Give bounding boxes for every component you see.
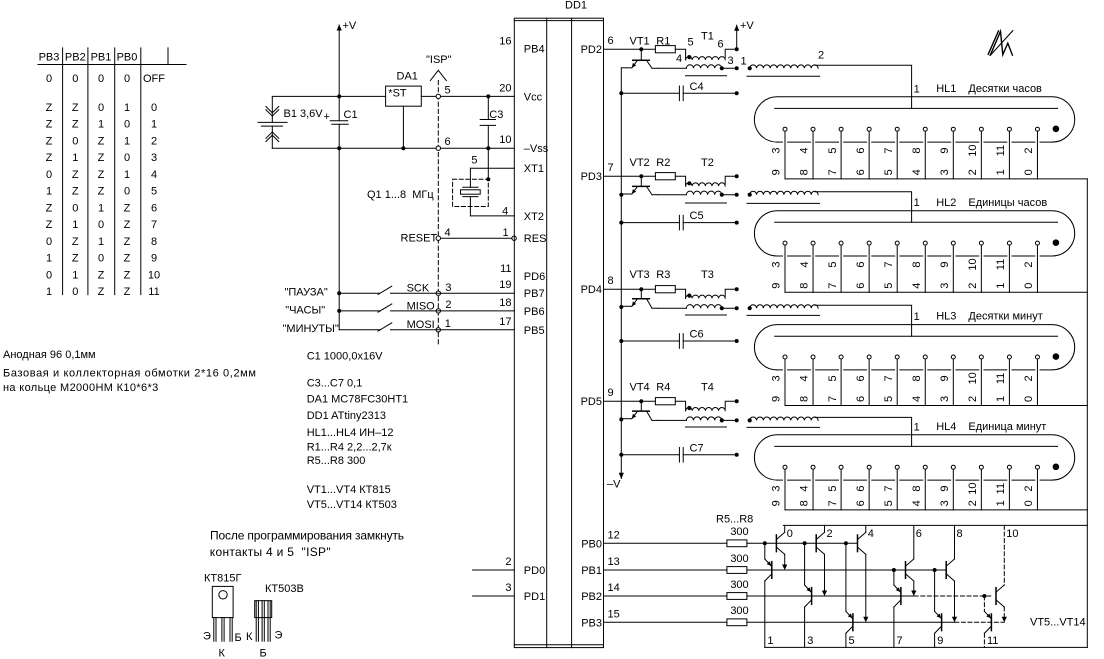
transistor VT7 (line 2)	[815, 535, 817, 552]
svg-text:300: 300	[730, 553, 748, 565]
svg-text:6: 6	[855, 396, 867, 402]
svg-text:13: 13	[608, 556, 620, 568]
svg-text:C3...C7 0,1: C3...C7 0,1	[307, 378, 363, 390]
svg-text:8: 8	[911, 375, 923, 381]
wire output line 5 to bottom bus	[845, 633, 847, 647]
svg-text:C4: C4	[690, 81, 704, 93]
svg-text:6: 6	[855, 500, 867, 506]
svg-text:18: 18	[499, 297, 511, 309]
wire PD2 to base of VT1	[604, 48, 656, 50]
svg-text:MOSI: MOSI	[407, 319, 435, 331]
wire VT15 emitter to PB3	[1003, 607, 1005, 620]
resistor R7	[727, 593, 747, 600]
svg-text:на кольце М2000НМ К10*6*3: на кольце М2000НМ К10*6*3	[3, 382, 159, 394]
svg-text:Z: Z	[98, 152, 105, 164]
transistor VT9 (line 4)	[857, 535, 859, 552]
svg-text:0: 0	[1023, 283, 1035, 289]
transistor VT13 (line 8)	[945, 562, 947, 579]
junction +V / C1	[337, 94, 341, 98]
svg-text:5: 5	[883, 500, 895, 506]
svg-text:RESET: RESET	[401, 233, 438, 245]
svg-text:2: 2	[827, 528, 833, 540]
svg-text:1: 1	[72, 219, 78, 231]
svg-text:R3: R3	[656, 269, 670, 281]
svg-text:Э: Э	[275, 630, 283, 642]
svg-text:0: 0	[98, 102, 104, 114]
transistor package KT503V leads	[255, 601, 257, 642]
svg-text:"МИНУТЫ": "МИНУТЫ"	[283, 323, 339, 335]
svg-text:Z: Z	[72, 253, 79, 265]
svg-text:20: 20	[499, 82, 511, 94]
svg-text:16: 16	[499, 36, 511, 48]
wire PB1 row	[747, 569, 946, 571]
svg-text:R4: R4	[656, 381, 670, 393]
wire -Vss to crystal case	[487, 148, 489, 179]
svg-text:5: 5	[883, 283, 895, 289]
svg-text:7: 7	[883, 148, 895, 154]
svg-text:5: 5	[827, 261, 839, 267]
svg-text:0: 0	[98, 73, 104, 85]
junction -V rail C5	[619, 221, 623, 225]
power +V symbol right rail	[736, 25, 738, 49]
svg-text:"ПАУЗА": "ПАУЗА"	[285, 287, 328, 299]
junction +V rail C5	[735, 221, 739, 225]
svg-text:2: 2	[1023, 486, 1035, 492]
resistor R6	[727, 567, 747, 574]
svg-text:Десятки минут: Десятки минут	[968, 311, 1042, 323]
svg-text:3: 3	[939, 283, 951, 289]
wire T1 secondary to HL1 anode	[815, 65, 912, 108]
nixie tube HL4 cathode pins	[783, 465, 787, 469]
svg-text:6: 6	[855, 375, 867, 381]
wire PB1 pin 13 to R6	[604, 569, 727, 571]
svg-text:Единицы часов: Единицы часов	[968, 197, 1047, 209]
transformer T3 core	[686, 314, 727, 316]
svg-text:1: 1	[124, 135, 130, 147]
resistor R1	[655, 46, 675, 53]
capacitor C7	[621, 454, 679, 456]
svg-text:0: 0	[72, 286, 78, 298]
transformer T2 winding 5-6	[686, 183, 726, 186]
resistor R4	[655, 398, 675, 405]
svg-text:1: 1	[124, 102, 130, 114]
svg-text:3: 3	[939, 396, 951, 402]
svg-text:VT4: VT4	[630, 381, 650, 393]
svg-text:PB1: PB1	[91, 52, 112, 64]
svg-text:9: 9	[608, 387, 614, 399]
svg-text:R1: R1	[656, 36, 670, 48]
wire VT13 emitter to PB3	[954, 581, 956, 620]
svg-text:6: 6	[855, 486, 867, 492]
transistor VT6 (line 1)	[771, 562, 773, 579]
wire PD0 stub pin 2	[473, 569, 515, 571]
svg-text:3: 3	[151, 152, 157, 164]
svg-text:0: 0	[98, 253, 104, 265]
svg-text:–V: –V	[607, 479, 621, 491]
wire output line 2 to top bus	[824, 525, 826, 532]
node ISP pin 2	[436, 309, 440, 313]
svg-text:Z: Z	[46, 135, 53, 147]
svg-text:4: 4	[911, 500, 923, 506]
wire PB0 pin 12 to R5	[604, 542, 727, 544]
svg-text:1: 1	[914, 197, 920, 209]
transistor VT12 (line 7)	[900, 588, 902, 605]
svg-text:0: 0	[98, 219, 104, 231]
junction -V rail C4	[619, 91, 623, 95]
svg-text:OFF: OFF	[143, 73, 165, 85]
wire PB2 row	[747, 595, 914, 597]
wire XT1 pin 5 to crystal	[470, 167, 514, 169]
svg-text:2: 2	[818, 50, 824, 62]
svg-text:"ЧАСЫ": "ЧАСЫ"	[285, 305, 325, 317]
svg-text:C7: C7	[690, 442, 704, 454]
transistor VT4 collector wire to winding 4-3	[658, 419, 686, 421]
svg-text:R2: R2	[656, 157, 670, 169]
svg-text:3: 3	[939, 500, 951, 506]
svg-text:8: 8	[799, 283, 811, 289]
node ISP pin 6	[436, 146, 440, 150]
svg-text:1: 1	[98, 119, 104, 131]
svg-text:9: 9	[771, 169, 783, 175]
capacitor C6	[621, 340, 679, 342]
svg-text:Z: Z	[46, 152, 53, 164]
transistor VT3	[640, 289, 642, 299]
svg-text:4: 4	[799, 375, 811, 381]
junction Vcc / C3	[486, 94, 490, 98]
transistor package KT503V body	[255, 601, 272, 618]
svg-text:T2: T2	[701, 157, 714, 169]
svg-text:8: 8	[151, 236, 157, 248]
svg-text:PD3: PD3	[581, 171, 602, 183]
svg-text:1: 1	[124, 169, 130, 181]
svg-text:1: 1	[995, 396, 1007, 402]
svg-text:RES: RES	[524, 233, 547, 245]
svg-text:0: 0	[1023, 500, 1035, 506]
svg-text:6: 6	[855, 261, 867, 267]
svg-text:Базовая и коллекторная обмотки: Базовая и коллекторная обмотки 2*16 0,2м…	[3, 368, 257, 380]
svg-text:14: 14	[608, 582, 620, 594]
svg-text:C1: C1	[344, 109, 358, 121]
svg-text:В1 3,6V: В1 3,6V	[284, 108, 324, 120]
svg-text:5: 5	[883, 396, 895, 402]
svg-text:Z: Z	[46, 219, 53, 231]
svg-text:5: 5	[827, 375, 839, 381]
svg-text:7: 7	[883, 261, 895, 267]
capacitor C3	[487, 96, 489, 119]
svg-text:Z: Z	[72, 119, 79, 131]
junction -V rail C6	[619, 339, 623, 343]
svg-text:0: 0	[124, 152, 130, 164]
svg-text:Z: Z	[98, 135, 105, 147]
svg-text:7: 7	[151, 219, 157, 231]
svg-text:8: 8	[911, 486, 923, 492]
svg-text:3: 3	[771, 261, 783, 267]
wire table column separators	[62, 48, 64, 295]
wire VT5 emitter to PB1	[784, 554, 786, 568]
svg-text:Z: Z	[46, 119, 53, 131]
svg-text:2: 2	[967, 396, 979, 402]
svg-text:MISO: MISO	[407, 301, 436, 313]
svg-text:Б: Б	[235, 632, 242, 644]
svg-text:1: 1	[914, 83, 920, 95]
wire output line 0 to top bus	[784, 525, 786, 532]
junction +V rail pin6 of T2	[735, 174, 739, 178]
nixie tube HL1 cathode pins	[783, 127, 787, 131]
svg-text:7: 7	[608, 162, 614, 174]
wire matrix bottom bus	[765, 646, 1088, 648]
node RES pin circle	[512, 236, 516, 240]
wire DA1 ground leg	[402, 106, 404, 148]
svg-text:PB5: PB5	[524, 325, 545, 337]
resistor R2	[655, 173, 675, 180]
nixie tube HL3 decimal dot cathode	[1053, 353, 1060, 360]
svg-text:8: 8	[911, 261, 923, 267]
svg-text:9: 9	[939, 375, 951, 381]
wire -V emitter rail	[620, 68, 622, 478]
svg-text:2: 2	[1023, 261, 1035, 267]
junction PD4 base tee	[639, 287, 643, 291]
svg-text:PB2: PB2	[581, 591, 602, 603]
wire ISP dashed connector line	[437, 81, 439, 345]
wire PB2 pin 14 to R7	[604, 595, 727, 597]
svg-text:"ISP": "ISP"	[426, 54, 452, 66]
svg-text:9: 9	[937, 635, 943, 647]
svg-text:10: 10	[148, 269, 160, 281]
svg-text:Q1 1...8 МГц: Q1 1...8 МГц	[367, 189, 434, 201]
svg-text:Десятки часов: Десятки часов	[968, 83, 1042, 95]
nixie tube HL3 anode grid	[775, 335, 1058, 337]
nixie tube HL2 decimal dot cathode	[1053, 239, 1060, 246]
svg-text:11: 11	[148, 286, 159, 298]
wire output line 1 upper segment	[764, 543, 766, 559]
svg-text:5: 5	[445, 85, 451, 97]
svg-text:6: 6	[855, 169, 867, 175]
svg-text:C5: C5	[690, 210, 704, 222]
svg-text:PB4: PB4	[524, 44, 545, 56]
svg-text:XT2: XT2	[524, 211, 544, 223]
svg-text:R5...R8: R5...R8	[716, 513, 753, 525]
svg-text:3: 3	[771, 486, 783, 492]
wire T2 secondary to HL2 anode	[815, 192, 912, 223]
junction +V rail C7	[735, 453, 739, 457]
svg-text:6: 6	[855, 148, 867, 154]
svg-text:8: 8	[957, 528, 963, 540]
svg-text:5: 5	[827, 148, 839, 154]
svg-text:4: 4	[911, 396, 923, 402]
nixie tube HL2 envelope	[754, 211, 1074, 256]
junction PD5 base tee	[639, 399, 643, 403]
svg-text:HL2: HL2	[936, 197, 956, 209]
junction PD2 base tee	[639, 47, 643, 51]
svg-text:Э: Э	[203, 631, 211, 643]
svg-text:Z: Z	[72, 236, 79, 248]
wire VT11 emitter to PB2	[913, 581, 915, 594]
transistor package KT815G body	[212, 586, 233, 617]
svg-text:8: 8	[799, 169, 811, 175]
transistor VT16 (line 11)	[990, 614, 992, 631]
wire table header underline	[38, 64, 186, 66]
svg-text:PB6: PB6	[524, 306, 545, 318]
svg-text:VT3: VT3	[630, 269, 650, 281]
svg-text:0: 0	[72, 135, 78, 147]
svg-text:4: 4	[799, 261, 811, 267]
svg-text:11: 11	[995, 259, 1007, 270]
svg-text:4: 4	[799, 148, 811, 154]
svg-text:–Vss: –Vss	[524, 143, 549, 155]
node journal logo	[990, 31, 1012, 55]
svg-text:6: 6	[445, 136, 451, 148]
junction +V rail C6	[735, 339, 739, 343]
svg-text:9: 9	[771, 500, 783, 506]
svg-text:2: 2	[445, 299, 451, 311]
crystal Q1	[463, 186, 478, 188]
transformer T3 secondary winding 1-2	[748, 306, 752, 310]
svg-text:10: 10	[1006, 528, 1018, 540]
svg-text:PD2: PD2	[581, 44, 602, 56]
wire +V top rail battery to DA1	[272, 95, 385, 97]
svg-text:10: 10	[499, 134, 511, 146]
junction +V rail pin6 of T3	[735, 287, 739, 291]
svg-text:1: 1	[503, 227, 509, 239]
svg-text:8: 8	[799, 396, 811, 402]
transistor package KT815G leads	[213, 618, 215, 642]
svg-text:1: 1	[445, 318, 451, 330]
svg-text:1: 1	[995, 283, 1007, 289]
nixie tube HL2 cathode pins	[783, 241, 787, 245]
transformer T2 winding 4-3	[686, 191, 721, 195]
svg-text:R1...R4 2,2...2,7к: R1...R4 2,2...2,7к	[307, 441, 392, 453]
svg-text:Z: Z	[98, 269, 105, 281]
svg-text:Z: Z	[72, 102, 79, 114]
svg-text:7: 7	[827, 396, 839, 402]
junction PD3 base tee	[639, 174, 643, 178]
svg-text:1: 1	[914, 421, 920, 433]
svg-text:4: 4	[868, 528, 874, 540]
svg-text:PD4: PD4	[581, 284, 602, 296]
svg-text:1: 1	[72, 269, 78, 281]
svg-text:5: 5	[849, 635, 855, 647]
svg-text:7: 7	[897, 635, 903, 647]
transformer T2 core	[686, 202, 727, 204]
junction +V rail pin3 of T4	[735, 418, 739, 422]
transformer T4 winding 5-6	[686, 408, 726, 411]
svg-text:1: 1	[98, 236, 104, 248]
svg-text:T4: T4	[701, 381, 714, 393]
svg-text:7: 7	[883, 486, 895, 492]
svg-text:контакты 4 и 5 "ISP": контакты 4 и 5 "ISP"	[210, 545, 331, 559]
svg-text:PB7: PB7	[524, 288, 545, 300]
svg-text:T1: T1	[701, 31, 714, 43]
junction -V rail emitter VT3	[619, 305, 623, 309]
wire PD1 stub pin 3	[473, 595, 515, 597]
svg-text:1: 1	[98, 202, 104, 214]
transistor VT11 (line 6)	[905, 562, 907, 579]
svg-text:VT1: VT1	[630, 36, 650, 48]
svg-text:4: 4	[151, 169, 157, 181]
svg-text:3: 3	[807, 635, 813, 647]
svg-text:VT5...VT14: VT5...VT14	[1030, 617, 1086, 629]
transistor VT10 (line 5)	[852, 614, 854, 631]
svg-text:2: 2	[967, 169, 979, 175]
wire output line 3 to bottom bus	[804, 607, 806, 647]
svg-text:0: 0	[124, 119, 130, 131]
svg-text:1: 1	[995, 500, 1007, 506]
svg-text:4: 4	[676, 53, 682, 65]
svg-text:PB3: PB3	[581, 617, 602, 629]
wire crystal left leg	[469, 168, 471, 187]
wire output line 9 upper segment	[934, 570, 936, 611]
svg-text:12: 12	[608, 529, 620, 541]
svg-text:11: 11	[995, 373, 1007, 384]
resistor R8	[727, 619, 747, 626]
svg-text:*ST: *ST	[388, 88, 407, 100]
nixie tube HL1 envelope	[754, 97, 1074, 142]
svg-text:Z: Z	[46, 102, 53, 114]
svg-text:2: 2	[1023, 148, 1035, 154]
svg-text:4: 4	[911, 283, 923, 289]
svg-text:SCK: SCK	[407, 283, 430, 295]
svg-text:DD1: DD1	[565, 0, 587, 12]
svg-text:PD0: PD0	[524, 565, 545, 577]
wire output line 4 to top bus	[865, 525, 867, 532]
wire PB3 row	[747, 621, 955, 623]
svg-text:9: 9	[939, 148, 951, 154]
svg-text:Z: Z	[124, 219, 131, 231]
svg-text:C6: C6	[690, 329, 704, 341]
node ISP pin 4	[436, 236, 440, 240]
connector ISP marker	[430, 70, 446, 80]
power -V symbol	[619, 473, 624, 479]
wire GND bottom rail battery to pin 10 -Vss	[272, 147, 514, 149]
svg-text:Vcc: Vcc	[524, 91, 543, 103]
svg-text:3: 3	[771, 375, 783, 381]
junction -V rail C7	[619, 453, 623, 457]
capacitor C4	[621, 92, 679, 94]
svg-text:Z: Z	[98, 186, 105, 198]
transformer T3 winding 4-3	[686, 305, 721, 309]
svg-text:0: 0	[46, 73, 52, 85]
svg-text:1: 1	[995, 169, 1007, 175]
svg-text:8: 8	[799, 500, 811, 506]
svg-text:HL1...HL4 ИН–12: HL1...HL4 ИН–12	[307, 427, 394, 439]
svg-text:6: 6	[855, 283, 867, 289]
svg-text:6: 6	[608, 35, 614, 47]
svg-text:HL1: HL1	[936, 83, 956, 95]
svg-text:PD5: PD5	[581, 396, 602, 408]
svg-text:10: 10	[967, 372, 979, 384]
svg-text:6: 6	[718, 39, 724, 51]
svg-text:10: 10	[967, 144, 979, 156]
svg-text:+V: +V	[740, 20, 754, 32]
svg-text:19: 19	[499, 279, 511, 291]
svg-text:2: 2	[1023, 375, 1035, 381]
wire output line 1 to bottom bus	[764, 581, 766, 647]
svg-text:4: 4	[911, 169, 923, 175]
transformer T4 winding 4-3	[686, 417, 721, 421]
svg-text:7: 7	[827, 500, 839, 506]
svg-text:T3: T3	[701, 269, 714, 281]
wire cathode bus HL4	[785, 509, 1087, 511]
svg-text:PD6: PD6	[524, 271, 545, 283]
wire output line 7 to bottom bus	[893, 607, 895, 647]
svg-text:R5...R8 300: R5...R8 300	[307, 455, 366, 467]
resistor R5	[727, 540, 747, 547]
svg-text:7: 7	[883, 375, 895, 381]
svg-text:C1 1000,0x16V: C1 1000,0x16V	[307, 350, 383, 362]
svg-text:PB2: PB2	[65, 52, 86, 64]
junction keys CLOCK	[337, 309, 341, 313]
svg-text:17: 17	[499, 316, 511, 328]
